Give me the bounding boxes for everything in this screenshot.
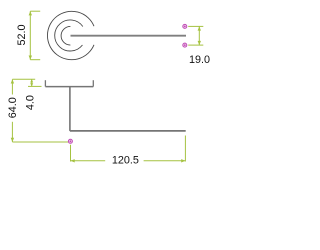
rose inner edge circle (front view)	[55, 20, 83, 51]
dimension 52.0	[16, 11, 40, 60]
svg-text:4.0: 4.0	[25, 95, 37, 110]
lever arm (side view)	[70, 130, 186, 132]
lever bar centerline (front view)	[71, 35, 187, 37]
dimension 4.0	[25, 79, 42, 110]
marker point lever reference	[68, 139, 72, 143]
svg-text:52.0: 52.0	[16, 24, 28, 45]
rose outer circle (front view)	[47, 11, 94, 59]
dimension 19.0	[188, 26, 210, 66]
svg-text:19.0: 19.0	[189, 54, 210, 66]
lever neck arc (front view)	[61, 26, 70, 45]
svg-text:120.5: 120.5	[112, 154, 139, 166]
svg-text:64.0: 64.0	[7, 97, 19, 118]
lever stem (side view)	[69, 87, 71, 131]
rose plate face line (side view)	[45, 86, 93, 88]
rose plate left edge hook (side view)	[44, 80, 46, 86]
rose plate right edge hook (side view)	[92, 80, 94, 86]
marker point bar bottom	[183, 43, 187, 47]
dimension 64.0	[7, 79, 68, 142]
dimension 120.5	[71, 136, 186, 167]
marker point bar top	[183, 24, 187, 28]
